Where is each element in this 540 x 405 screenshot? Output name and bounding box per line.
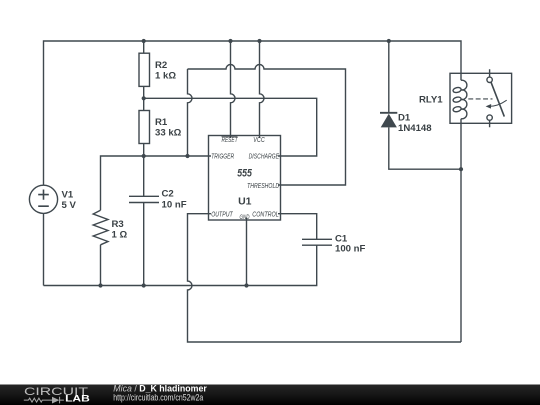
svg-text:CONTROL: CONTROL (252, 212, 279, 219)
svg-text:GND: GND (240, 215, 250, 221)
svg-text:C2: C2 (162, 189, 174, 200)
svg-text:555: 555 (237, 167, 252, 179)
svg-text:R2: R2 (155, 60, 167, 71)
svg-text:RLY1: RLY1 (419, 95, 443, 106)
svg-text:R3: R3 (112, 219, 124, 230)
svg-text:TRIGGER: TRIGGER (211, 153, 234, 160)
svg-text:100 nF: 100 nF (335, 244, 366, 255)
svg-text:1 Ω: 1 Ω (112, 230, 128, 241)
svg-text:RESET: RESET (222, 137, 238, 144)
svg-text:10 nF: 10 nF (162, 200, 187, 211)
svg-text:OUTPUT: OUTPUT (211, 212, 233, 219)
svg-text:5 V: 5 V (62, 200, 77, 211)
svg-text:LAB: LAB (65, 394, 90, 404)
svg-text:R1: R1 (155, 117, 168, 128)
svg-text:DISCHARGE: DISCHARGE (249, 153, 280, 160)
svg-text:THRESHOLD: THRESHOLD (247, 183, 279, 190)
svg-text:U1: U1 (238, 197, 252, 208)
svg-text:V1: V1 (62, 190, 74, 201)
svg-text:VCC: VCC (253, 137, 265, 144)
svg-text:33 kΩ: 33 kΩ (155, 128, 182, 139)
svg-text:1 kΩ: 1 kΩ (155, 70, 176, 81)
svg-text:1N4148: 1N4148 (398, 123, 432, 134)
svg-text:http://circuitlab.com/cn52w2a: http://circuitlab.com/cn52w2a (113, 393, 204, 404)
svg-text:D1: D1 (398, 112, 411, 123)
